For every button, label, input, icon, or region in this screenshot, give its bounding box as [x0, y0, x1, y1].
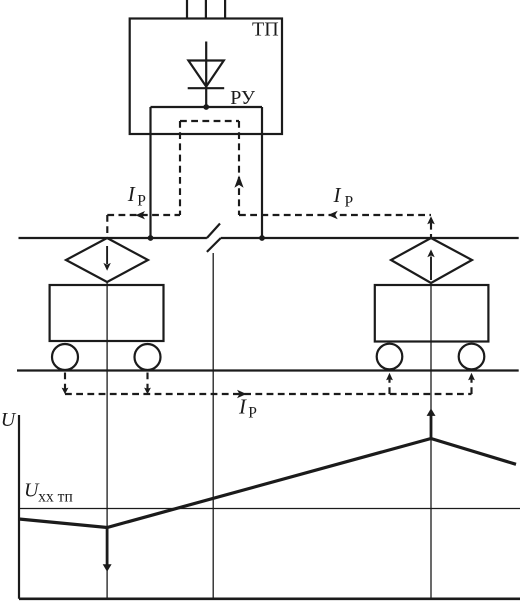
substation box ТП	[130, 19, 282, 135]
section insulator lower slash	[207, 238, 221, 252]
reference line from right locomotive to graph	[430, 283, 432, 598]
graph distance axis horizontal	[19, 597, 520, 600]
pantograph diamond left locomotive	[66, 238, 148, 282]
dashed drop to left pantograph	[106, 215, 108, 238]
diode VD cathode bar	[188, 87, 225, 89]
arrowhead up rail riser right wheel 1	[386, 373, 393, 381]
svg-text:I: I	[238, 394, 247, 418]
wire feeder line 3	[224, 0, 226, 19]
dashed rail return path horizontal	[65, 393, 472, 395]
section insulator upper slash	[207, 224, 220, 239]
wire РУ right feeder	[261, 107, 263, 238]
wire feeder line 2	[205, 0, 207, 19]
svg-text:Р: Р	[137, 193, 146, 210]
arrow up inside right pantograph	[427, 249, 434, 280]
arrowhead up rail riser right wheel 2	[468, 373, 475, 381]
voltage profile curve	[19, 439, 516, 528]
pantograph diamond right locomotive	[391, 238, 472, 283]
wire РУ left feeder	[149, 107, 151, 238]
locomotive 2 body	[375, 285, 489, 342]
node dot right feeder to contact wire	[259, 235, 265, 241]
dashed rail drop left wheel 1	[64, 373, 66, 391]
dashed loop left leg in РУ	[179, 121, 181, 215]
wheel 1 locomotive 2	[377, 344, 403, 370]
diode VD anode lead	[205, 42, 207, 108]
wire feeder line 1	[186, 0, 188, 19]
svg-text:Р: Р	[345, 194, 354, 211]
arrowhead down rail drop wheel 1	[62, 388, 69, 395]
svg-text:ТП: ТП	[252, 19, 279, 41]
node dot diode to РУ	[203, 104, 209, 110]
svg-text:I: I	[127, 182, 136, 206]
svg-text:хх тп: хх тп	[38, 488, 72, 505]
reference line from left locomotive to graph	[106, 282, 108, 598]
arrowhead left on left dashed path	[135, 211, 145, 219]
svg-text:Р: Р	[248, 405, 257, 422]
arrow down inside left pantograph	[103, 246, 110, 271]
diode VD triangle	[188, 61, 223, 87]
no-load voltage level line	[19, 508, 520, 510]
arrowhead right on rail return path	[237, 390, 247, 398]
dashed rail riser right wheel 1	[388, 378, 390, 394]
dashed current path left horizontal	[107, 214, 180, 216]
arrow up voltage rise at right locomotive	[427, 408, 436, 438]
svg-text:РУ: РУ	[230, 87, 256, 109]
node dot left feeder to contact wire	[148, 235, 154, 241]
dashed loop right leg in РУ	[238, 121, 240, 215]
wheel 2 locomotive 2	[459, 344, 485, 370]
contact wire left section	[19, 237, 207, 239]
contact wire right section	[221, 237, 519, 239]
arrowhead down rail drop wheel 2	[144, 388, 151, 395]
dashed current path right horizontal	[239, 214, 431, 216]
arrowhead up on РУ dashed loop	[234, 175, 243, 188]
svg-text:U: U	[1, 409, 17, 431]
dashed rail riser right wheel 2	[470, 378, 472, 394]
dashed rail drop left wheel 2	[146, 373, 148, 391]
arrowhead left on right dashed path	[328, 211, 338, 219]
svg-text:I: I	[333, 183, 342, 207]
reference line from section insulator to graph	[212, 253, 214, 598]
graph U axis vertical	[18, 415, 20, 599]
dashed recuperation loop box top in РУ	[180, 120, 239, 122]
arrowhead up at right pantograph riser	[427, 216, 435, 224]
locomotive 1 body	[50, 285, 164, 341]
rail line	[17, 369, 519, 371]
dashed riser from right pantograph	[430, 223, 432, 238]
wheel 2 locomotive 1	[135, 344, 161, 370]
wheel 1 locomotive 1	[52, 344, 78, 370]
arrow down voltage drop at left locomotive	[103, 528, 112, 572]
busbar РУ top edge	[151, 106, 263, 108]
